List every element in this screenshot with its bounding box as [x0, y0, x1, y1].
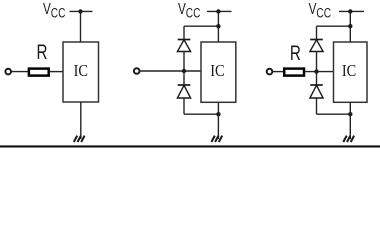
svg-text:IC: IC: [210, 61, 224, 80]
ground (circuit 3): [343, 136, 354, 142]
IC box U2 (circuit 2): [201, 42, 236, 102]
junction dot on VCC rail (circuit 3): [348, 9, 352, 13]
ground (circuit 1): [74, 136, 85, 142]
wire resistor to IC (circuit 3): [305, 71, 333, 73]
wire bottom diode anode to ground rail (circuit 3): [316, 98, 318, 114]
diode D2 cathode bar (circuit 2): [178, 84, 191, 86]
wire VCC rail (circuit 3): [339, 10, 364, 12]
junction dot at VCC branch (circuit 3): [348, 24, 352, 28]
wire branch to top diode (circuit 2): [184, 25, 218, 27]
IC box U1 (circuit 1): [63, 42, 99, 102]
input terminal circle (circuit 1): [5, 69, 11, 75]
wire input node to bottom diode (circuit 2): [183, 71, 185, 85]
wire IC bottom to ground (circuit 1): [80, 102, 82, 139]
wire VCC to IC top (circuit 1): [80, 11, 82, 42]
wire bottom diode anode to ground rail (circuit 2): [183, 98, 185, 114]
diode D4 cathode bar (circuit 3): [310, 84, 323, 86]
svg-text:R: R: [37, 41, 48, 64]
junction dot ground rail (circuit 3): [348, 112, 352, 116]
svg-text:R: R: [290, 42, 301, 65]
wire resistor to IC (circuit 1): [50, 71, 63, 73]
junction dot on VCC rail (circuit 2): [216, 9, 220, 13]
wire VCC rail (circuit 1): [70, 10, 93, 12]
svg-text:IC: IC: [74, 61, 88, 80]
label VCC (circuit 1): [43, 1, 66, 20]
wire IC bottom to ground (circuit 2): [217, 102, 219, 139]
wire to top diode cathode (circuit 2): [183, 26, 185, 39]
wire VCC down to IC top (circuit 3): [349, 11, 351, 42]
resistor R (circuit 3): [284, 69, 304, 76]
resistor R (circuit 1): [29, 69, 49, 76]
svg-text:CC: CC: [51, 6, 66, 21]
wire VCC down to IC top (circuit 2): [217, 11, 219, 42]
bottom border line: [0, 145, 380, 147]
input terminal circle (circuit 3): [267, 69, 273, 75]
diode D1 triangle (circuit 2): [177, 40, 190, 52]
wire top diode anode to input node (circuit 3): [316, 52, 318, 72]
junction dot input node (circuit 3): [314, 69, 318, 73]
wire input to IC (circuit 2): [139, 70, 201, 72]
svg-text:CC: CC: [316, 6, 331, 21]
wire top diode anode to input node (circuit 2): [183, 52, 185, 72]
ground (circuit 2): [211, 136, 222, 142]
diode D3 cathode bar (circuit 3): [310, 39, 323, 41]
label VCC (circuit 2): [178, 1, 201, 20]
diode D1 cathode bar (circuit 2): [178, 39, 191, 41]
wire input node to bottom diode (circuit 3): [316, 72, 318, 85]
wire to top diode cathode (circuit 3): [316, 26, 318, 39]
wire input to resistor R (circuit 3): [272, 71, 284, 73]
wire VCC rail (circuit 2): [207, 10, 232, 12]
wire ground rail (circuit 2): [184, 113, 218, 115]
diode D3 triangle (circuit 3): [310, 40, 323, 52]
wire branch to top diode (circuit 3): [317, 25, 351, 27]
label VCC (circuit 3): [309, 1, 332, 20]
junction dot on VCC rail (circuit 1): [78, 9, 82, 13]
svg-text:IC: IC: [342, 61, 356, 80]
diode D4 triangle (circuit 3): [310, 85, 323, 98]
junction dot input node (circuit 2): [182, 69, 186, 73]
svg-text:CC: CC: [186, 6, 201, 21]
diode D2 triangle (circuit 2): [177, 85, 190, 98]
wire input to resistor R (circuit 1): [11, 71, 29, 73]
IC box U3 (circuit 3): [334, 42, 368, 102]
junction dot ground rail (circuit 2): [216, 112, 220, 116]
junction dot at VCC branch (circuit 2): [216, 24, 220, 28]
wire IC bottom to ground (circuit 3): [349, 102, 351, 139]
wire ground rail (circuit 3): [317, 113, 351, 115]
input terminal circle (circuit 2): [134, 68, 140, 74]
